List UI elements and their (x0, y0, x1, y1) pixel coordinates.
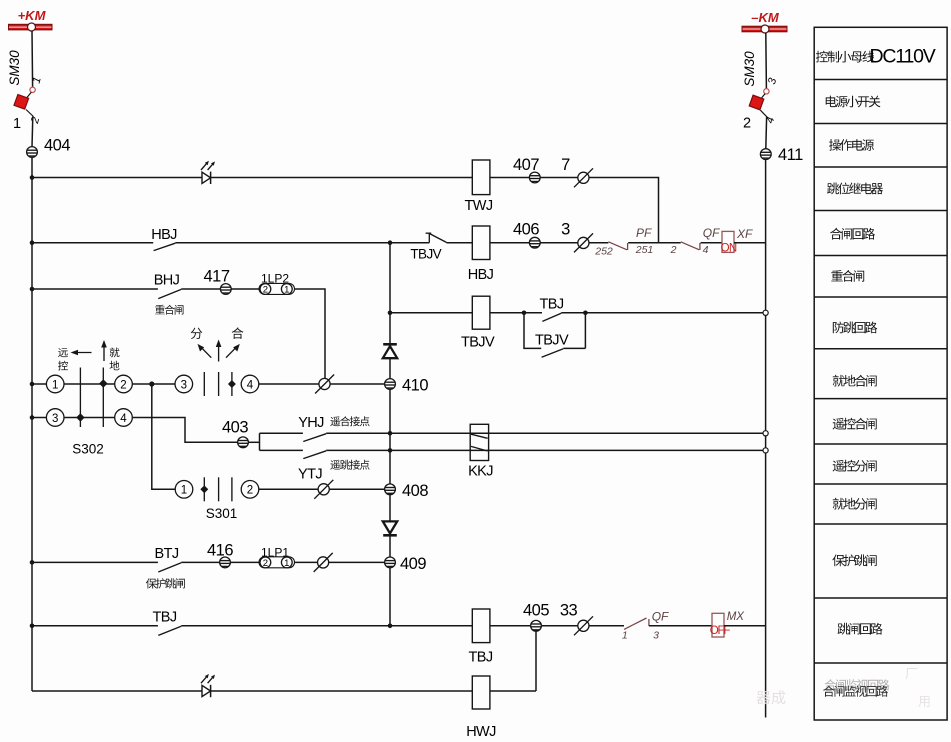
table row9 label (833, 418, 877, 430)
arrow close (up-right) with text (226, 327, 243, 357)
wire row3 terminal 417 to link 1LP2 (231, 288, 260, 290)
terminal 408 (385, 482, 429, 500)
connector (test link) on row9 (314, 553, 333, 572)
connector (test link) on row1 (574, 168, 593, 187)
wire row10 connector to QF contact (589, 625, 624, 627)
node circle 1 (S301 pin 1) (175, 481, 193, 499)
wire row9 terminal 416 to link 1LP1 (230, 561, 259, 563)
node circle 4 (control switch pin 4) (241, 375, 259, 393)
wire row9 BTJ to terminal 416 (181, 561, 219, 563)
wire row10 MX to right bus (724, 625, 766, 627)
wire row1 LED to coil TWJ (211, 177, 472, 179)
svg-text:TBJV: TBJV (535, 333, 569, 349)
junction node left of TBJ parallel group (522, 311, 527, 316)
wire row10 TBJ contact to coil TBJ (181, 625, 472, 627)
switch SM30 right (power mini switch) (742, 51, 779, 132)
svg-text:403: 403 (222, 419, 248, 437)
svg-text:406: 406 (513, 221, 539, 239)
svg-text:1: 1 (284, 558, 289, 569)
svg-text:BHJ: BHJ (154, 273, 180, 289)
contact TBJV (NC) on row2 (410, 233, 446, 261)
arrow local (up) with text (101, 340, 119, 370)
svg-text:416: 416 (207, 542, 233, 560)
contact TBJ (NO) on row4 (540, 297, 564, 322)
contact PF pins 252-251 (brown) (594, 226, 653, 258)
svg-text:1: 1 (181, 485, 187, 497)
svg-text:–KM: –KM (751, 10, 780, 25)
table row2 label (826, 96, 881, 108)
wire row2 terminal 406 to connector (540, 242, 578, 244)
wire row5 node1 to node2 (64, 383, 115, 385)
svg-text:3: 3 (766, 76, 779, 86)
wire row10 QF to MX box (649, 625, 712, 627)
svg-text:417: 417 (203, 268, 229, 286)
wire row5 node2 to node3b with junction (132, 383, 175, 385)
function table frame (814, 27, 947, 720)
wire from -KM bus to right switch SM30 (765, 33, 768, 89)
wire row11 bus to LED2 (32, 690, 202, 692)
svg-text:410: 410 (402, 377, 428, 395)
wire row5 node4 to connector (259, 383, 319, 385)
node circle 3 (control switch pin 3) (175, 375, 193, 393)
terminal 410 (385, 377, 429, 395)
wire row2 TBJV contact to coil HBJ (446, 242, 472, 244)
svg-text:404: 404 (44, 137, 70, 155)
svg-text:251: 251 (635, 244, 654, 256)
parallel branch wires for TBJV contact (524, 313, 541, 349)
svg-text:YHJ: YHJ (298, 415, 324, 431)
wire YTJ branch left segment (260, 449, 303, 451)
wire row10 coil TBJ to terminal 405 (490, 625, 531, 627)
svg-text:408: 408 (402, 482, 428, 500)
wire connector to terminal 408 (329, 488, 384, 490)
svg-text:HWJ: HWJ (466, 724, 496, 740)
arrow handle (up-middle) (216, 340, 222, 362)
wire row3 1LP2 right, corner down to connector on row5 (295, 289, 326, 379)
svg-text:ON: ON (721, 243, 737, 255)
wire row9 connector to terminal 409 (329, 561, 385, 563)
contact TBJ (NO) on row10 (153, 610, 182, 636)
svg-text:PF: PF (636, 226, 652, 240)
svg-text:KKJ: KKJ (468, 464, 493, 480)
wire row2 coil to terminal 406 (490, 242, 530, 244)
svg-text:4: 4 (120, 413, 127, 425)
wire row4 TBJ contact to right bus (561, 312, 765, 314)
svg-text:1: 1 (52, 379, 58, 391)
bus -KM negative control bus (742, 10, 787, 33)
svg-text:2: 2 (263, 285, 268, 296)
svg-text:S302: S302 (72, 442, 104, 457)
svg-text:SM30: SM30 (7, 50, 22, 86)
LED indicator (green lamp) on row1 (201, 161, 215, 184)
svg-text:YTJ: YTJ (298, 467, 322, 483)
wire row2 left bus to HBJ contact (32, 242, 153, 244)
svg-text:2: 2 (263, 558, 268, 569)
terminal 406 (513, 221, 540, 249)
wire from junction down to S301 row (152, 384, 176, 489)
arrow remote (left) with text (58, 348, 92, 370)
svg-text:2: 2 (743, 116, 751, 132)
open connector dot YHJ line at right bus (763, 431, 768, 436)
wire YTJ contact to right bus through KKJ (326, 449, 765, 451)
junction node row2 x centre bus (388, 240, 393, 245)
watermark faint marks (757, 668, 930, 707)
arrow trip (up-left) with text (191, 328, 212, 358)
node circle 1 (S302 pin 1) (46, 375, 64, 393)
indicator box MX with OFF (710, 611, 745, 637)
wire row1 terminal 407 to connector (540, 177, 578, 179)
wire terminal 403 to split bracket (248, 441, 259, 443)
svg-text:2: 2 (29, 116, 42, 126)
node circle 4 (S302 pin 4) (115, 409, 133, 427)
svg-text:405: 405 (523, 602, 549, 620)
coil HBJ (anti-pumping relay coil) (468, 226, 494, 283)
svg-text:TBJ: TBJ (153, 610, 177, 626)
node circle 2 (S302 pin 2) (115, 375, 133, 393)
diode D2 (points down) on centre bus (383, 521, 397, 535)
wire from +KM bus to switch SM30 (31, 31, 34, 87)
svg-text:+KM: +KM (18, 8, 47, 23)
svg-text:TBJ: TBJ (469, 650, 493, 666)
terminal 404 (27, 137, 71, 158)
wire row3 BHJ to terminal 417 (181, 288, 220, 290)
contact YTJ (remote trip contact) (298, 451, 370, 483)
svg-text:252: 252 (594, 246, 613, 258)
switch SM30 left (power mini switch) (7, 50, 44, 132)
LED indicator (close supervision lamp) on row11 (201, 674, 215, 697)
wire row9 bus to BTJ contact (32, 561, 158, 563)
svg-text:3: 3 (561, 221, 570, 239)
wire row2 PF to QF contact (628, 242, 681, 244)
contact YHJ (remote close contact) (298, 415, 369, 442)
contact BTJ (NO, protection trip) (146, 546, 185, 589)
wire row2 connector to PF contact (589, 242, 608, 244)
table row4 label (827, 183, 883, 195)
junction node YHJ line at centre bus (388, 431, 393, 436)
wire row10 terminal 405 to connector (541, 625, 577, 627)
wire row9 1LP1 to connector (295, 561, 318, 563)
svg-text:1: 1 (284, 285, 289, 296)
connector (test link) on S301 row (314, 480, 333, 499)
terminal 403 (222, 419, 248, 448)
svg-text:SM30: SM30 (742, 51, 757, 87)
wire row2 QF to XF box (701, 242, 723, 244)
svg-text:3: 3 (181, 379, 187, 391)
svg-text:DC110V: DC110V (870, 46, 936, 68)
wire row11 coil HWJ to vertical from 405 (490, 690, 536, 692)
svg-text:QF: QF (652, 610, 669, 624)
table row3 label (829, 139, 874, 151)
wire vertical drop from terminal 405 to row11 (535, 631, 537, 691)
junction node YTJ line at centre bus (388, 448, 393, 453)
wire switch to terminal 411 (765, 117, 768, 149)
terminal 416 (207, 542, 233, 568)
link 1LP1 (connecting strap) (259, 546, 295, 570)
svg-text:TBJV: TBJV (461, 335, 495, 351)
svg-text:2: 2 (247, 485, 253, 497)
diode D1 (points up) on centre bus (383, 344, 397, 358)
contact HBJ (NO) on row2 (151, 227, 177, 251)
svg-text:QF: QF (703, 226, 720, 240)
link 1LP2 (connecting strap) (259, 272, 295, 296)
wire row4 centre bus to coil TBJV (390, 312, 472, 314)
table row12 label (832, 554, 876, 566)
coil TBJ (trip relay) (469, 609, 493, 666)
switch S301 contact bars (200, 477, 232, 501)
left vertical bus wire (31, 157, 33, 691)
wire row1 connector to corner, down to row2 (589, 178, 659, 243)
contact TBJV (NO) in parallel branch (535, 333, 569, 358)
coil HWJ (close position relay) (466, 676, 496, 740)
centre vertical bus wire (389, 243, 391, 626)
indicator box XF with ON (721, 227, 753, 255)
svg-text:TBJV: TBJV (410, 247, 441, 262)
table row10 label (833, 460, 877, 472)
svg-text:MX: MX (727, 611, 746, 623)
wire row2 XF to right bus (734, 242, 766, 244)
wire row6 node3 to node4 (64, 417, 115, 419)
svg-text:HBJ: HBJ (468, 267, 494, 283)
control switch contact bars (between pins 3 and 4) (204, 372, 236, 396)
table row6 label (831, 270, 864, 282)
svg-text:S301: S301 (206, 506, 238, 521)
switch S302 remote position bar with diamond (76, 368, 84, 428)
svg-text:407: 407 (513, 156, 539, 174)
svg-text:4: 4 (247, 379, 254, 391)
table row7 label (833, 322, 878, 334)
wire row1 coil to terminal 407 (490, 177, 530, 179)
junction node row4 at centre bus (388, 311, 393, 316)
svg-text:OFF: OFF (710, 625, 731, 637)
table row13 label (838, 623, 883, 635)
terminal 407 (513, 156, 540, 183)
junction node right of TBJ parallel group (583, 311, 588, 316)
node circle 2 (S301 pin 2) (241, 481, 259, 499)
svg-text:411: 411 (778, 146, 803, 164)
junction dots on left bus (30, 175, 35, 180)
contact QF pins 1-3 (brown) on trip circuit (622, 610, 669, 642)
svg-text:7: 7 (561, 156, 570, 174)
wire YHJ branch left segment (260, 432, 303, 434)
wire row1 TWJ circuit left segment (32, 177, 202, 179)
svg-text:2: 2 (670, 244, 677, 256)
svg-text:4: 4 (703, 244, 709, 256)
wire row5 connector to terminal 410 (330, 383, 385, 385)
connector (test link) on row10 (574, 616, 593, 635)
wire switch to terminal 404 (31, 117, 34, 148)
node circle 3 (S302 pin 3) (46, 409, 64, 427)
open connector dot YTJ line at right bus (763, 448, 768, 453)
open connector dot row4 at right bus (763, 310, 768, 315)
svg-text:1: 1 (622, 630, 628, 642)
terminal 405 (523, 602, 549, 632)
table row11 label (833, 498, 877, 510)
table row5 label (830, 228, 875, 240)
svg-text:HBJ: HBJ (151, 227, 177, 243)
wire S301 pin2 to connector (259, 488, 319, 490)
wire row4 coil TBJV to TBJ contact (490, 312, 542, 314)
coil TWJ (trip position relay) (465, 160, 493, 214)
svg-text:2: 2 (120, 379, 126, 391)
coil TBJV (anti-pump voltage relay) (461, 296, 495, 350)
wire row10 bus to TBJ contact (32, 625, 158, 627)
bracket splitting to YHJ / YTJ branches (259, 433, 261, 450)
junction node row10 at centre bus (388, 624, 393, 629)
connector (test link) on row5 (315, 375, 334, 394)
wire row11 LED2 to coil HWJ (211, 690, 472, 692)
table row14 label (close supervision circuit, watermark-garbled) (823, 679, 889, 697)
svg-text:1: 1 (13, 116, 21, 132)
svg-text:3: 3 (52, 413, 58, 425)
wire row6 bus to node 3 (32, 417, 46, 419)
right vertical bus wire (765, 160, 767, 718)
contact QF pins 2-4 (brown) (681, 226, 720, 256)
connector (test link) on row2 (574, 233, 593, 252)
junction node feeding S301 branch (149, 381, 154, 386)
svg-text:33: 33 (560, 602, 578, 620)
svg-text:BTJ: BTJ (155, 546, 179, 562)
contact BHJ (NO, reclose) (154, 273, 184, 315)
terminal 417 (203, 268, 231, 295)
wire row2 HBJ contact to TBJV NC contact (junction at centre bus) (175, 242, 429, 244)
wire row3 left bus to BHJ contact (32, 288, 158, 290)
svg-text:3: 3 (653, 630, 659, 642)
table row8 label (833, 375, 877, 387)
svg-text:409: 409 (400, 555, 426, 573)
svg-text:XF: XF (736, 227, 753, 241)
table row1 label control bus DC110V (816, 51, 874, 63)
terminal 411 (760, 146, 803, 164)
wire row6 S302 pin4 corner down to terminal 403 (132, 418, 237, 443)
wire row5 bus to node 1 (32, 383, 46, 385)
svg-text:TWJ: TWJ (465, 198, 493, 214)
bus +KM positive control bus (9, 8, 53, 31)
wire YHJ contact to right bus through KKJ (326, 432, 765, 434)
svg-text:TBJ: TBJ (540, 297, 564, 313)
terminal 409 (385, 555, 427, 573)
coil KKJ (latching relay, drawn over the two wires) (468, 424, 493, 479)
switch S302 local position bar with diamond (99, 368, 107, 428)
